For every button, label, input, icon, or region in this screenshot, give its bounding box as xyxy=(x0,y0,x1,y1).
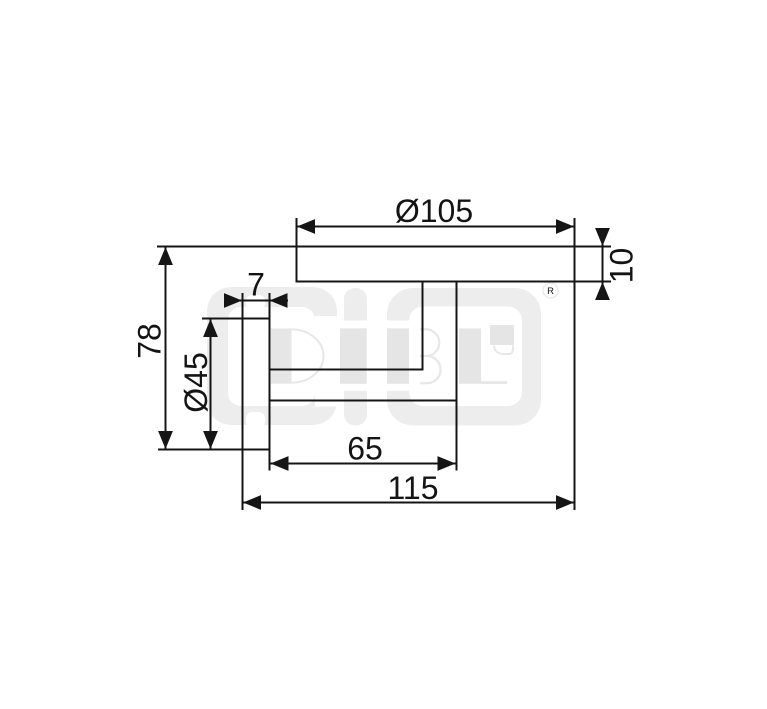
plate left edge xyxy=(296,218,298,283)
flange top edge xyxy=(202,318,271,320)
plate bottom edge xyxy=(296,281,612,283)
dimension 7 right arrow xyxy=(270,293,288,308)
dimension 65 right arrow xyxy=(438,456,456,471)
dimension 7 left arrow xyxy=(224,293,242,308)
dimension D45 top arrow xyxy=(203,319,218,337)
dimension 65 line xyxy=(270,463,456,465)
dimension 10 lower arrow xyxy=(595,282,610,300)
watermark logo glyph L with caron xyxy=(459,325,514,384)
arm top edge xyxy=(269,369,424,371)
stem left edge xyxy=(422,281,424,371)
dimension 78 bottom arrow xyxy=(158,431,173,449)
dimension D45 line xyxy=(210,319,212,450)
svg-text:10: 10 xyxy=(604,248,640,284)
dimension 78 top arrow xyxy=(158,247,173,265)
dimension D105 line xyxy=(297,226,575,228)
dimension 78 line xyxy=(165,247,167,450)
dimension 10 line xyxy=(602,229,604,300)
plate top edge xyxy=(157,246,611,248)
dimension 10 upper arrow xyxy=(595,228,610,246)
flange left edge xyxy=(242,293,244,510)
svg-text:65: 65 xyxy=(347,431,383,467)
watermark logo glyph B ring xyxy=(340,288,541,426)
dimension 65 left arrow xyxy=(271,456,289,471)
flange right edge xyxy=(269,293,271,471)
svg-text:Ø45: Ø45 xyxy=(178,352,214,412)
plate right edge xyxy=(574,218,576,510)
dimension D105 right arrow xyxy=(556,219,574,234)
watermark logo glyph D xyxy=(207,287,340,427)
dimension 115 line xyxy=(243,502,575,504)
svg-text:115: 115 xyxy=(387,470,438,506)
stem right edge xyxy=(456,281,458,471)
arm bottom edge xyxy=(269,400,458,402)
dimension D105 left arrow xyxy=(297,219,315,234)
svg-text:Ø105: Ø105 xyxy=(395,193,473,229)
svg-text:78: 78 xyxy=(132,323,168,359)
watermark registered mark xyxy=(543,283,558,298)
dimension 115 right arrow xyxy=(556,495,574,510)
dimension 7 line xyxy=(224,300,288,302)
dimension 115 left arrow xyxy=(243,495,261,510)
flange bottom edge xyxy=(158,449,271,451)
dimension D45 bottom arrow xyxy=(203,431,218,449)
svg-text:7: 7 xyxy=(247,267,265,303)
svg-text:R: R xyxy=(547,286,554,297)
